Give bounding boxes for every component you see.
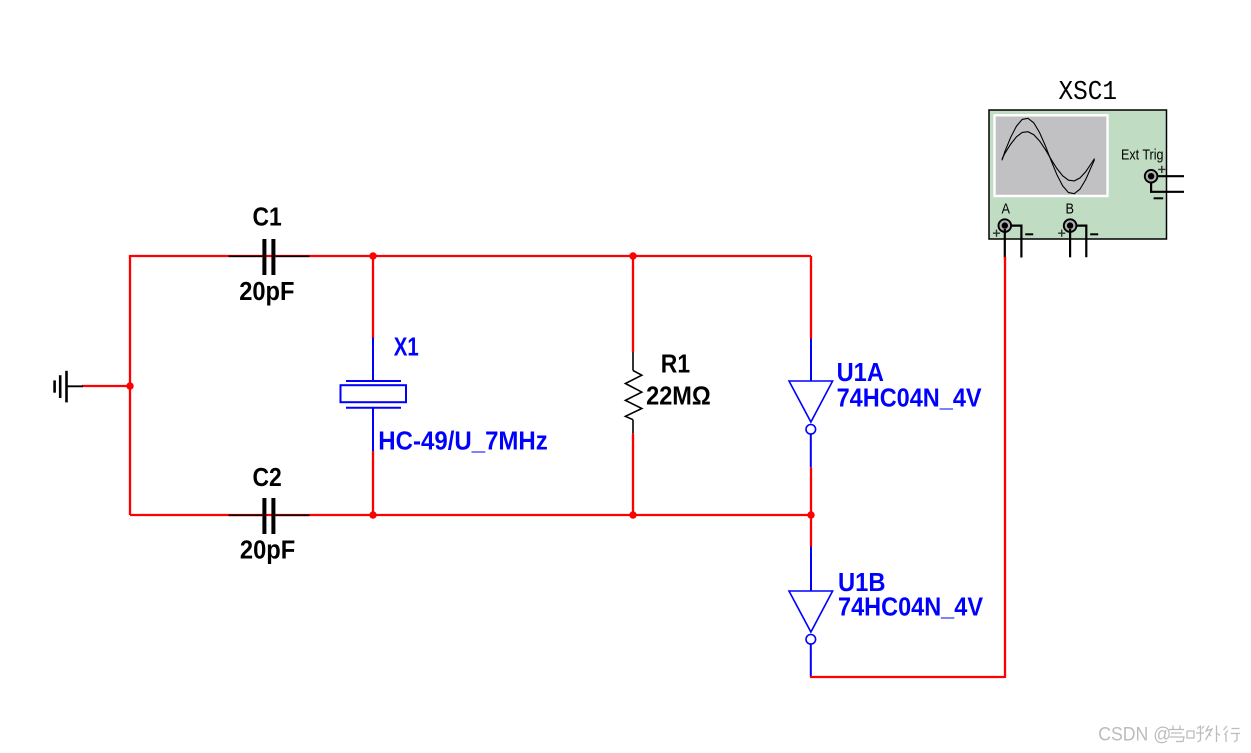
capacitor C2: [229, 498, 310, 534]
capacitor C1: [229, 239, 310, 275]
wire right vertical to scope: [1004, 257, 1006, 678]
svg-text:C1: C1: [253, 203, 282, 231]
resistor R1: [625, 352, 641, 434]
label C1: [253, 203, 282, 231]
value 20pF (C1): [239, 278, 294, 306]
wire bottom right horizontal: [810, 676, 1005, 678]
op-amp U1A inverter: [789, 339, 833, 468]
label C2: [253, 464, 282, 492]
node junction dot bottom X1: [369, 511, 376, 518]
op-amp U1B inverter: [789, 547, 833, 678]
label R1: [661, 350, 690, 378]
label XSC1: [1059, 77, 1118, 107]
wire Ext Trig minus stub: [1151, 183, 1184, 192]
label B: [1066, 202, 1075, 218]
wire top horizontal net: [130, 255, 811, 257]
svg-text:XSC1: XSC1: [1059, 77, 1118, 107]
watermark CSDN: [1098, 724, 1171, 746]
wire X1 bottom lead red: [372, 451, 374, 515]
wire R1 top lead red: [632, 256, 634, 352]
svg-text:X1: X1: [394, 333, 419, 361]
watermark char xing: [1224, 726, 1241, 742]
crystal X1: [341, 338, 407, 452]
watermark char wai: [1206, 726, 1221, 743]
node junction dot bottom U1: [807, 511, 814, 518]
svg-text:B: B: [1066, 202, 1075, 218]
node junction dot bottom R1: [629, 511, 636, 518]
wire terminal A down lead: [1004, 229, 1006, 258]
svg-text:C2: C2: [253, 464, 282, 492]
svg-text:20pF: 20pF: [240, 537, 295, 565]
value 74HC04N_4V (U1B): [838, 594, 983, 622]
svg-text:U1A: U1A: [837, 359, 884, 387]
value 22MΩ: [646, 382, 711, 410]
scope waveform trace big: [1002, 118, 1095, 193]
value 20pF (C2): [240, 537, 295, 565]
label U1B: [838, 569, 886, 597]
label plus (A): [993, 230, 1000, 237]
label minus (Ext Trig): [1154, 197, 1164, 199]
node junction dot ground: [126, 382, 133, 389]
svg-text:A: A: [1002, 202, 1011, 218]
scope waveform trace small: [1002, 132, 1095, 181]
wire terminal B down lead: [1069, 229, 1071, 257]
wire ground stub: [82, 385, 130, 387]
value HC-49/U_7MHz: [378, 428, 548, 456]
wire terminal A minus stub: [1011, 226, 1022, 258]
label minus (A): [1025, 233, 1033, 235]
wire U1A output red: [810, 467, 812, 515]
label plus (Ext Trig): [1158, 166, 1165, 173]
node junction dot top R1: [629, 252, 636, 259]
wire R1 bottom lead red: [632, 434, 634, 515]
terminal B: [1064, 219, 1077, 232]
svg-text:20pF: 20pF: [239, 278, 294, 306]
svg-text:R1: R1: [661, 350, 690, 378]
svg-text:Ext Trig: Ext Trig: [1121, 148, 1164, 164]
wire terminal A red lead: [1004, 257, 1006, 260]
svg-text:74HC04N_4V: 74HC04N_4V: [838, 594, 983, 622]
value 74HC04N_4V (U1A): [837, 384, 982, 412]
svg-text:22MΩ: 22MΩ: [646, 382, 711, 410]
label Ext Trig: [1121, 148, 1164, 164]
svg-text:CSDN @: CSDN @: [1098, 724, 1171, 746]
oscilloscope XSC1 body: [989, 110, 1167, 239]
label U1A: [837, 359, 884, 387]
svg-text:74HC04N_4V: 74HC04N_4V: [837, 384, 982, 412]
wire Ext Trig plus stub: [1158, 175, 1185, 177]
watermark char wan: [1169, 726, 1184, 742]
wire U1A input red: [810, 256, 812, 339]
wire left vertical: [129, 255, 131, 515]
terminal A: [999, 219, 1012, 232]
label minus (B): [1090, 233, 1098, 235]
ground: [55, 371, 83, 403]
label X1: [394, 333, 419, 361]
wire U1B input red: [810, 515, 812, 547]
label A: [1002, 202, 1011, 218]
watermark char hu: [1187, 726, 1204, 743]
wire terminal B minus stub: [1076, 226, 1087, 258]
wire bottom horizontal net: [130, 514, 811, 516]
terminal Ext Trig: [1145, 170, 1158, 183]
label plus (B): [1058, 230, 1065, 237]
node junction dot top X1: [369, 252, 376, 259]
wire X1 top lead red: [372, 256, 374, 338]
svg-text:HC-49/U_7MHz: HC-49/U_7MHz: [378, 428, 548, 456]
